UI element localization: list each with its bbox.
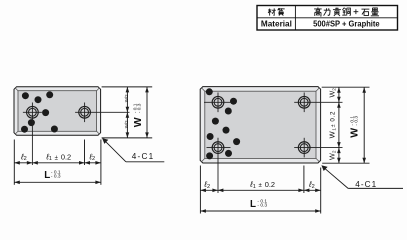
right view hole 4 (bottom-right) counterbored hole (crosshair) (294, 138, 342, 158)
right view W extension lines (322, 87, 370, 163)
left view l2 dimension (right) (85, 161, 101, 165)
left view l1 dimension (32, 161, 84, 165)
right view W overall dimension (362, 87, 366, 163)
svg-text:4-C1: 4-C1 (355, 180, 377, 189)
svg-text:W: W (349, 128, 361, 138)
right view plug 2 graphite plug (230, 98, 237, 105)
table cell: 高力黄銅＋石墨 (high-strength brass + graphite) (314, 7, 379, 16)
right view plug 8 graphite plug (206, 152, 213, 159)
right view plug 3 graphite plug (225, 108, 232, 115)
svg-text:W/2: W/2 (124, 120, 129, 128)
right view l2 dimension (left) (200, 189, 218, 193)
right view plug 1 graphite plug (206, 88, 213, 95)
right view 4-C1 chamfer leader (321, 165, 403, 188)
svg-text:500#SP + Graphite: 500#SP + Graphite (313, 19, 380, 29)
left view length extension lines (14, 140, 101, 185)
left view W dimension extension lines (102, 87, 153, 138)
svg-text:- 0.3: - 0.3 (354, 116, 360, 126)
svg-text:4-C1: 4-C1 (132, 152, 155, 161)
left view l2 dimension (left) (14, 161, 32, 165)
left view plug 3 graphite plug (35, 96, 42, 103)
left view plug 7 graphite plug (51, 126, 58, 133)
right view plug 4 graphite plug (212, 118, 219, 125)
left view W/2 labels (124, 94, 129, 128)
svg-text:- 0.3: - 0.3 (257, 203, 267, 209)
right view plug 5 graphite plug (223, 127, 230, 134)
right view W1 dimension (337, 102, 341, 147)
right view l2 dimension (right) (304, 189, 321, 193)
right view hole 3 (bottom-left) counterbored hole (crosshair) (207, 138, 231, 193)
right view plate body (beveled block) (200, 87, 320, 163)
table cell: 材質 (material, JP) (268, 8, 285, 16)
right view W label with tolerance (349, 116, 361, 138)
right view plug 6 graphite plug (207, 133, 214, 140)
left view hole 1 counterbored hole (crosshair) (23, 103, 42, 166)
svg-text:L: L (44, 170, 50, 181)
right view W2 bottom dimension (337, 148, 341, 164)
left view plug 5 graphite plug (28, 119, 35, 126)
svg-text:W: W (132, 117, 144, 127)
svg-text:L: L (250, 199, 256, 210)
right view hole 2 (top-right) counterbored hole (crosshair) (294, 93, 342, 113)
left view plug 1 graphite plug (22, 92, 29, 99)
svg-text:Material: Material (261, 20, 292, 29)
left view L dimension line (14, 181, 101, 185)
right view hole 1 (top-left) counterbored hole (crosshair) (204, 93, 232, 113)
left view plug 2 graphite plug (46, 91, 53, 98)
left view hole 2 counterbored hole (crosshair) (75, 103, 129, 123)
right view L dimension line (200, 209, 320, 213)
left view plug 6 graphite plug (21, 126, 28, 133)
svg-text:- 0.3: - 0.3 (51, 174, 61, 180)
left view 4-C1 chamfer leader (102, 138, 164, 162)
left view L label with tolerance (44, 170, 61, 181)
left view plug 4 graphite plug (42, 109, 49, 116)
svg-text:- 0.3: - 0.3 (137, 103, 143, 113)
right view W2 top dimension (337, 87, 341, 102)
right view l1 dimension (218, 189, 304, 193)
left view W/2 split dimension line (126, 87, 130, 138)
left view plate body (beveled block) (14, 87, 101, 136)
left view W label with tolerance (132, 103, 144, 127)
right view length extension lines (200, 166, 320, 214)
svg-text:W/2: W/2 (124, 94, 129, 102)
material table frame (257, 6, 398, 31)
right view L label with tolerance (250, 199, 267, 211)
right view plug 9 graphite plug (225, 150, 232, 157)
right view plug 7 graphite plug (233, 138, 240, 145)
left view W overall dimension line (145, 87, 149, 138)
